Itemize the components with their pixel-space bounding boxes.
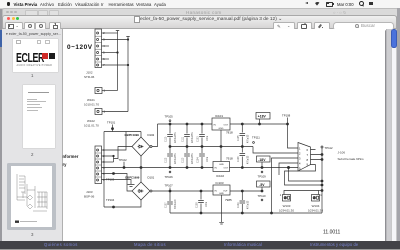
connector J103 [84, 146, 105, 199]
wire railA to pin1 [288, 124, 294, 148]
svg-text:W104: W104 [312, 204, 320, 208]
test point TP108 [282, 114, 291, 125]
svg-text:2: 2 [299, 151, 301, 155]
svg-text:3: 3 [299, 156, 301, 160]
wire W102 to bus2 [102, 111, 128, 113]
connector W103 [279, 191, 319, 213]
svg-text:J102: J102 [86, 71, 93, 75]
wire bus2 [126, 37, 129, 112]
svg-text:TP109: TP109 [258, 175, 267, 179]
svg-text:7: 7 [307, 153, 309, 157]
transformer label [63, 154, 79, 167]
toolbar buttons [5, 22, 23, 31]
svg-text:7918: 7918 [226, 157, 233, 161]
svg-text:C103: C103 [198, 136, 200, 142]
svg-text:6: 6 [307, 148, 309, 152]
sidebar [2, 29, 63, 241]
svg-text:TP106: TP106 [165, 175, 174, 179]
svg-text:1010.01.70: 1010.01.70 [84, 103, 99, 107]
svg-text:C109: C109 [238, 202, 240, 208]
wire pin5 [102, 52, 119, 54]
svg-text:TP107: TP107 [165, 184, 174, 188]
svg-text:C110: C110 [166, 136, 168, 142]
bridge rectifier D102 [125, 133, 155, 156]
wire pin4 stub [102, 45, 110, 47]
wire W101 to bus1 [102, 90, 118, 92]
svg-text:W103: W103 [283, 204, 291, 208]
svg-text:J-106: J-106 [338, 151, 346, 155]
svg-text:-18V: -18V [258, 158, 266, 162]
wire D102 bottom to D101 top [140, 156, 142, 182]
wire TP101 node [104, 131, 141, 133]
wire right bus [321, 148, 323, 213]
test point TP107 [165, 184, 174, 192]
svg-text:C105: C105 [238, 135, 240, 141]
svg-text:2200u/35v: 2200u/35v [175, 131, 177, 143]
net -5V [257, 181, 271, 191]
svg-text:J103: J103 [86, 190, 93, 194]
svg-text:GBPC1999: GBPC1999 [125, 176, 140, 180]
wire D102 left lead [114, 147, 133, 159]
svg-text:470u/25: 470u/25 [247, 200, 249, 209]
content page (white) [63, 29, 386, 241]
menu bar [0, 0, 400, 9]
wire pin3 down [272, 158, 294, 213]
capacitor C113 [183, 147, 195, 168]
svg-text:6: 6 [103, 178, 105, 182]
wire J103 pin1 up [102, 132, 127, 151]
regulator IC103 [213, 181, 232, 213]
svg-text:100n: 100n [206, 201, 208, 207]
svg-text:C107: C107 [166, 202, 168, 208]
svg-text:1034.01.30: 1034.01.30 [308, 209, 323, 213]
svg-text:GBPC1999: GBPC1999 [125, 133, 140, 137]
svg-text:IC102: IC102 [216, 174, 224, 178]
wire rail C right [230, 167, 289, 169]
rail B [169, 145, 253, 147]
wire pin2 [102, 32, 118, 34]
wire J103 pin5 to D101 [102, 174, 133, 192]
svg-text:2200u/35v: 2200u/35v [192, 152, 194, 164]
svg-text:GND: GND [219, 164, 224, 166]
svg-text:GND: GND [219, 193, 224, 195]
svg-text:TP108: TP108 [282, 114, 291, 118]
wire pin7 [102, 64, 129, 66]
svg-text:C104: C104 [198, 157, 200, 163]
capacitor C109 [238, 191, 250, 213]
desktop left sliver [0, 7, 3, 241]
active window title + toolbar [2, 15, 397, 30]
svg-text:OUT: OUT [224, 168, 229, 170]
connector J106 dsub [289, 143, 365, 172]
svg-text:TP105: TP105 [165, 115, 174, 119]
svg-text:STR-06: STR-06 [84, 75, 95, 79]
wire railB to pin2 [253, 147, 294, 154]
svg-text:4: 4 [299, 161, 301, 165]
connector W104 [308, 189, 323, 212]
svg-text:C112: C112 [166, 157, 168, 163]
wire bus1 [116, 31, 119, 91]
svg-text:470u/25: 470u/25 [247, 134, 249, 143]
svg-text:1034.01.30: 1034.01.30 [279, 209, 294, 213]
svg-text:TP112: TP112 [325, 146, 333, 150]
wire left drop [103, 132, 105, 208]
svg-text:2200u/35v: 2200u/35v [175, 152, 177, 164]
svg-text:TP111: TP111 [252, 136, 260, 140]
label 0~120V [67, 44, 93, 51]
svg-text:5: 5 [103, 172, 105, 176]
svg-text:IC103: IC103 [216, 181, 224, 185]
wire J103 pin6 [102, 180, 132, 185]
svg-text:W102: W102 [87, 119, 95, 123]
test point TP104 [106, 198, 115, 208]
wire pin4 down [279, 163, 294, 175]
rail E [170, 212, 322, 214]
thumb 1 (landscape cover) [13, 39, 58, 72]
wire J103 pin2 jumper [102, 155, 115, 162]
thumb 2 (portrait text page) [23, 85, 55, 148]
capacitor C111 [183, 124, 195, 147]
capacitor C107 [166, 191, 178, 213]
net -18V [257, 156, 271, 168]
bridge rectifier D101 [125, 176, 155, 201]
svg-text:TP102: TP102 [119, 158, 128, 162]
test point TP105 [165, 115, 174, 122]
connector J102 [84, 29, 105, 79]
svg-text:2200u/35v: 2200u/35v [192, 131, 194, 143]
capacitor C112 [166, 147, 178, 168]
svg-text:BSP-06: BSP-06 [84, 195, 95, 199]
blue app edge behind window [0, 30, 3, 47]
svg-text:TP104: TP104 [106, 198, 115, 202]
svg-text:1: 1 [280, 193, 282, 197]
scrollbar [391, 29, 397, 241]
connector W102 [84, 109, 106, 128]
grey gap right of page [386, 29, 392, 241]
svg-text:100n: 100n [207, 156, 209, 162]
svg-text:4: 4 [103, 166, 105, 170]
svg-text:D101: D101 [148, 176, 155, 180]
svg-text:IC101: IC101 [215, 114, 223, 118]
rail D [150, 190, 263, 192]
capacitor C105 [238, 124, 250, 147]
svg-text:TP110: TP110 [258, 194, 266, 198]
desktop right sliver [397, 8, 400, 242]
test point TP103 [106, 172, 115, 181]
wire pin6 stub [102, 58, 110, 60]
wire D102 right to rail A [150, 124, 158, 148]
capacitor C106 [238, 147, 250, 168]
capacitor C110 [166, 124, 178, 147]
svg-text:3300u/16: 3300u/16 [175, 199, 177, 209]
svg-text:8: 8 [307, 158, 309, 162]
svg-text:1011.01.70: 1011.01.70 [84, 124, 99, 128]
wire D102 top lead [140, 132, 142, 138]
svg-text:W101: W101 [87, 98, 95, 102]
wire bottom left [104, 200, 141, 207]
svg-text:-5V: -5V [259, 183, 265, 187]
svg-text:ry: ry [63, 162, 68, 167]
capacitor C104 [198, 147, 210, 168]
svg-text:11.0011: 11.0011 [323, 230, 341, 236]
background window title bar [2, 8, 399, 17]
regulator IC102 [213, 147, 233, 179]
svg-text:100n: 100n [207, 135, 209, 141]
ground at J103 pin6 [128, 185, 135, 187]
regulator IC101 [212, 114, 233, 147]
svg-text:Subd Female 9Pins: Subd Female 9Pins [338, 157, 365, 161]
svg-text:C106: C106 [238, 156, 240, 162]
svg-text:1: 1 [299, 146, 301, 150]
capacitor C103 [198, 124, 210, 147]
ground IC103 [219, 213, 224, 224]
svg-text:OUT: OUT [224, 125, 229, 127]
footer bar [0, 241, 400, 249]
rail C dots [169, 166, 290, 168]
svg-text:470u/25: 470u/25 [247, 155, 249, 164]
test point TP106 [165, 171, 174, 179]
test point TP109 [258, 171, 267, 178]
title [134, 16, 140, 23]
svg-text:7985: 7985 [225, 198, 232, 202]
svg-text:+18V: +18V [258, 115, 267, 119]
thumb 3 selected (schematic page) [7, 163, 56, 230]
connector W101 [84, 88, 106, 107]
traffic lights [7, 17, 10, 20]
wire pin3 [102, 39, 129, 41]
wire rail C left [102, 167, 214, 169]
svg-text:C113: C113 [183, 157, 185, 163]
svg-text:nformer: nformer [63, 154, 79, 159]
svg-text:D102: D102 [148, 133, 155, 137]
test point TP102 [119, 158, 128, 169]
svg-text:C111: C111 [183, 136, 185, 142]
svg-text:TP101: TP101 [107, 121, 116, 125]
test point TP112 [321, 146, 333, 150]
capacitor C108 [197, 191, 209, 213]
wire J103 pin3 [102, 161, 114, 163]
test point TP101 [107, 121, 116, 132]
rail A +V [158, 123, 289, 125]
test point TP111 [252, 136, 260, 144]
wire pin5 ground loop [287, 166, 323, 182]
svg-text:7818: 7818 [226, 131, 233, 135]
net +18V [256, 113, 270, 125]
test point TP110 [258, 194, 266, 201]
svg-text:OUT: OUT [223, 191, 228, 193]
wire pin9 loop [285, 165, 324, 187]
svg-text:GND: GND [219, 128, 224, 130]
svg-text:0~120V: 0~120V [67, 44, 93, 51]
svg-text:C108: C108 [197, 202, 199, 208]
sheet number 11.0011 [323, 230, 341, 236]
